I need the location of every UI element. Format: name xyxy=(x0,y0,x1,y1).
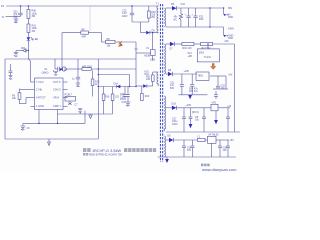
svg-text:PC817: PC817 xyxy=(65,94,73,97)
svg-text:C6: C6 xyxy=(27,127,31,130)
svg-text:JRCVP-G 3.5kW: JRCVP-G 3.5kW xyxy=(92,148,122,153)
svg-text:C10: C10 xyxy=(181,3,186,6)
svg-text:104: 104 xyxy=(223,149,228,152)
svg-text:CMP 1: CMP 1 xyxy=(53,104,61,108)
svg-text:105: 105 xyxy=(146,78,151,81)
svg-text:L1: L1 xyxy=(198,135,201,138)
svg-text:NC: NC xyxy=(174,19,178,22)
svg-text:N: N xyxy=(2,15,4,19)
svg-text:7805: 7805 xyxy=(198,75,204,78)
svg-text:400V: 400V xyxy=(122,15,128,18)
svg-text:V1: V1 xyxy=(146,47,150,50)
svg-text:2W: 2W xyxy=(151,16,155,19)
svg-text:LED: LED xyxy=(34,38,39,41)
svg-text:U4 78L05: U4 78L05 xyxy=(208,133,219,136)
svg-text:R14: R14 xyxy=(199,18,204,21)
svg-text:24V8: 24V8 xyxy=(228,28,234,31)
svg-text:50V: 50V xyxy=(170,87,175,90)
svg-text:D7: D7 xyxy=(170,48,174,51)
svg-text:OUT 6: OUT 6 xyxy=(53,80,61,84)
svg-text:D18: D18 xyxy=(172,102,177,105)
svg-text:K03B: K03B xyxy=(144,55,150,58)
svg-text:R17 512: R17 512 xyxy=(202,47,212,50)
svg-text:VR 8: VR 8 xyxy=(53,95,59,99)
svg-text:RDD-E-PRD-01 8 DATA 756: RDD-E-PRD-01 8 DATA 756 xyxy=(89,153,122,157)
svg-text:D8: D8 xyxy=(168,69,172,72)
svg-text:470: 470 xyxy=(187,149,192,152)
svg-text:U1: U1 xyxy=(44,67,48,71)
svg-text:(3842): (3842) xyxy=(42,72,49,75)
svg-text:38V: 38V xyxy=(228,7,233,10)
svg-text:1 GND: 1 GND xyxy=(36,104,44,108)
svg-text:+: + xyxy=(185,14,187,17)
svg-text:40V 47u: 40V 47u xyxy=(189,90,199,93)
svg-text:10k: 10k xyxy=(12,97,17,100)
svg-text:103k: 103k xyxy=(150,59,156,62)
svg-text:VR1: VR1 xyxy=(212,101,217,104)
svg-text:7 VCC: 7 VCC xyxy=(36,80,44,84)
svg-text:1k: 1k xyxy=(95,83,98,86)
svg-text:+2B: +2B xyxy=(188,55,193,58)
svg-text:R16 103: R16 103 xyxy=(183,47,193,50)
svg-text:ZW1: ZW1 xyxy=(199,52,205,55)
svg-text:D8: D8 xyxy=(152,30,156,33)
svg-text:P1: P1 xyxy=(1,4,5,8)
svg-text:C15: C15 xyxy=(122,101,127,104)
svg-text:3KV: 3KV xyxy=(13,15,18,18)
svg-text:25V: 25V xyxy=(120,98,125,101)
svg-text:+: + xyxy=(192,14,194,17)
svg-text:TL431: TL431 xyxy=(204,56,211,59)
svg-text:(8V/1): (8V/1) xyxy=(192,111,199,114)
svg-text:+5V: +5V xyxy=(230,139,235,142)
svg-text:3W: 3W xyxy=(32,30,36,33)
svg-text:D6: D6 xyxy=(168,135,172,138)
svg-text:R16: R16 xyxy=(105,96,110,99)
svg-text:10k: 10k xyxy=(107,45,112,48)
svg-text:24V: 24V xyxy=(225,40,230,43)
svg-text:+18V: +18V xyxy=(186,104,192,107)
svg-text:4 RT/CT: 4 RT/CT xyxy=(36,95,46,99)
svg-text:R22: R22 xyxy=(145,95,150,98)
svg-text:C7: C7 xyxy=(75,104,79,107)
svg-text:1u: 1u xyxy=(72,78,75,81)
svg-text:4M7: 4M7 xyxy=(82,36,87,39)
svg-text:+18V: +18V xyxy=(184,70,190,73)
svg-text:T1: T1 xyxy=(156,3,159,6)
svg-text:D14: D14 xyxy=(114,83,119,86)
svg-text:www.dianyuan.com: www.dianyuan.com xyxy=(202,167,237,172)
svg-text:30W: 30W xyxy=(228,37,234,40)
svg-text:D5: D5 xyxy=(171,3,175,6)
svg-text:+15: +15 xyxy=(227,105,232,108)
svg-text:3W: 3W xyxy=(32,15,36,18)
svg-text:10u: 10u xyxy=(195,119,200,122)
svg-text:30W: 30W xyxy=(228,16,234,19)
svg-text:2 Vfb: 2 Vfb xyxy=(36,88,43,92)
svg-text:CSN 3: CSN 3 xyxy=(53,88,61,92)
svg-text:152: 152 xyxy=(115,96,120,99)
svg-text:100V: 100V xyxy=(172,123,178,126)
svg-text:+5V: +5V xyxy=(228,74,233,77)
